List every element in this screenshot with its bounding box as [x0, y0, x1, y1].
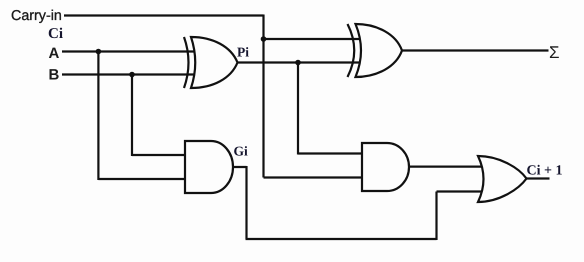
svg-text:Ci: Ci: [48, 26, 63, 42]
and-gate U3 (A AND B = Gi): [185, 141, 233, 193]
wire Pi from XOR U1 output to XOR U2 bottom input: [237, 61, 362, 63]
xor-gate U1 (A XOR B = Pi): [184, 37, 238, 88]
wire input A: [62, 50, 196, 52]
wire input B: [62, 73, 196, 75]
svg-text:Pi: Pi: [237, 44, 249, 59]
wire A branch down to AND U3 bottom input: [98, 52, 186, 181]
wire B branch down to AND U3 top input: [132, 75, 186, 157]
node junction Ci branch: [261, 36, 267, 42]
svg-text:A: A: [49, 45, 60, 62]
or-gate U5 (carry out Ci+1): [478, 156, 527, 202]
wire Pi branch down to AND U4 top input: [298, 63, 363, 155]
svg-text:Gi: Gi: [234, 144, 249, 159]
svg-text:Carry-in: Carry-in: [11, 8, 62, 24]
wire Gi output to OR U5 bottom input: [233, 166, 489, 240]
wire Ci vertical: [262, 15, 264, 178]
wire sum output to Σ: [402, 49, 549, 51]
svg-text:Ci + 1: Ci + 1: [527, 163, 563, 178]
wire AND U4 output to OR U5 top input: [409, 166, 489, 168]
wire Ci branch to XOR U2 top input: [264, 38, 362, 40]
node junction Pi branch: [295, 60, 301, 66]
wire Ci to AND U4 bottom input: [264, 176, 364, 178]
wire carry output Ci+1: [525, 177, 550, 179]
svg-text:B: B: [49, 67, 60, 84]
node junction on B: [129, 72, 135, 78]
xor-gate U2 (Pi XOR Ci = Σ): [348, 24, 403, 77]
node junction on A: [96, 49, 102, 55]
and-gate U4 (Pi AND Ci): [362, 143, 409, 191]
wire carry-in horizontal: [64, 14, 264, 16]
svg-text:Σ: Σ: [549, 43, 560, 62]
